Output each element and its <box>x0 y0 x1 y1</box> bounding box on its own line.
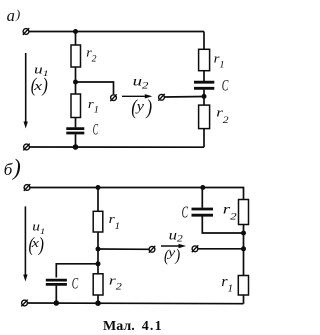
svg-text:C: C <box>182 203 189 221</box>
svg-text:б: б <box>4 160 13 179</box>
svg-text:C: C <box>93 121 99 139</box>
svg-text:C: C <box>222 76 229 94</box>
svg-text:y: y <box>166 246 176 260</box>
svg-text:): ) <box>11 155 21 180</box>
svg-text:): ) <box>38 233 44 256</box>
svg-text:Мал. 4.1: Мал. 4.1 <box>103 319 163 334</box>
svg-text:): ) <box>15 7 20 21</box>
svg-text:): ) <box>42 74 48 97</box>
svg-text:а: а <box>7 6 15 25</box>
svg-text:x: x <box>33 79 42 93</box>
svg-text:C: C <box>72 274 79 292</box>
svg-text:): ) <box>174 246 180 264</box>
svg-text:): ) <box>146 97 153 120</box>
svg-text:y: y <box>135 100 145 114</box>
